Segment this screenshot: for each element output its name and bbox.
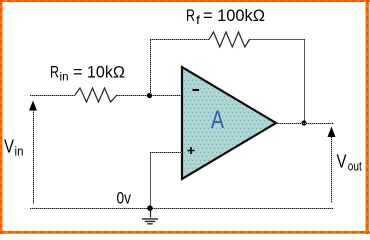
ground symbol bbox=[150, 208, 152, 218]
wire: input horizontal segment to inverting input bbox=[117, 95, 182, 97]
svg-text:R: R bbox=[50, 63, 59, 82]
svg-text:A: A bbox=[211, 106, 224, 134]
svg-text:0v: 0v bbox=[117, 189, 132, 208]
node: output junction bbox=[301, 120, 306, 125]
svg-text:V: V bbox=[4, 137, 14, 157]
wire: output horizontal bbox=[276, 123, 334, 125]
svg-text:V: V bbox=[337, 152, 347, 172]
resistor R_f zigzag bbox=[209, 32, 250, 47]
svg-text:in: in bbox=[15, 144, 24, 159]
svg-text:R: R bbox=[186, 6, 195, 25]
wire: bottom rail 0v bbox=[30, 208, 334, 210]
svg-text:in: in bbox=[60, 70, 69, 84]
wire: non-inverting input horizontal bbox=[150, 152, 182, 154]
pin label: non-inverting input plus bbox=[188, 147, 195, 154]
wire: Vin vertical line bbox=[33, 108, 35, 204]
wire: feedback top left segment bbox=[150, 39, 209, 41]
wire: feedback left vertical bbox=[150, 39, 152, 95]
wire: feedback top right segment bbox=[250, 39, 306, 41]
wire: feedback right vertical bbox=[304, 40, 306, 124]
wire: Vout vertical line bbox=[331, 135, 333, 203]
node: junction of input and feedback bbox=[147, 93, 152, 98]
arrow: Vout up arrowhead bbox=[328, 127, 336, 138]
wire: non-inverting input vertical to ground bbox=[150, 153, 152, 209]
arrow: Vin up arrowhead bbox=[29, 101, 37, 111]
border frame bbox=[0, 0, 370, 2]
op-amp U1 triangle bbox=[182, 67, 276, 179]
pin label: inverting input minus bbox=[193, 89, 200, 91]
svg-text:= 100kΩ: = 100kΩ bbox=[203, 6, 265, 25]
svg-text:out: out bbox=[348, 159, 362, 174]
node: ground junction bbox=[147, 205, 153, 211]
resistor R_in zigzag bbox=[75, 88, 117, 102]
wire: input horizontal segment left of Rin bbox=[30, 95, 75, 97]
svg-text:= 10kΩ: = 10kΩ bbox=[73, 63, 125, 82]
